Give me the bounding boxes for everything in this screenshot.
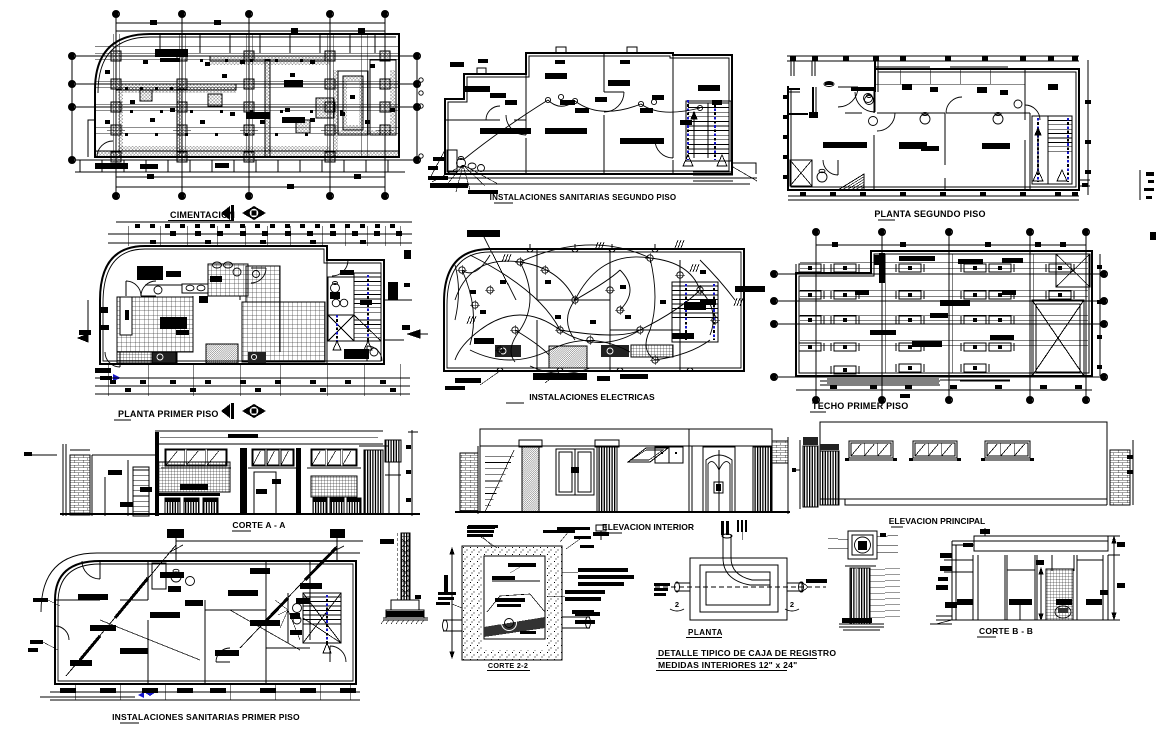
svg-text:INSTALACIONES SANITARIAS SEGUN: INSTALACIONES SANITARIAS SEGUNDO PISO [490, 193, 677, 202]
svg-text:INSTALACIONES SANITARIAS PRIME: INSTALACIONES SANITARIAS PRIMER PISO [112, 712, 300, 722]
svg-text:2: 2 [790, 600, 794, 609]
svg-text:2: 2 [675, 600, 679, 609]
svg-text:TECHO PRIMER PISO: TECHO PRIMER PISO [812, 401, 908, 411]
svg-text:PLANTA SEGUNDO PISO: PLANTA SEGUNDO PISO [874, 209, 985, 219]
svg-text:CORTE A - A: CORTE A - A [232, 520, 285, 530]
svg-text:INSTALACIONES ELECTRICAS: INSTALACIONES ELECTRICAS [529, 392, 655, 402]
svg-text:ELEVACION INTERIOR: ELEVACION INTERIOR [602, 522, 694, 532]
svg-text:MEDIDAS INTERIORES 12" x 24": MEDIDAS INTERIORES 12" x 24" [658, 660, 797, 670]
svg-text:PLANTA: PLANTA [688, 628, 723, 637]
svg-text:DETALLE TIPICO DE CAJA DE REGI: DETALLE TIPICO DE CAJA DE REGISTRO [658, 648, 836, 658]
svg-text:ELEVACION PRINCIPAL: ELEVACION PRINCIPAL [889, 516, 986, 526]
svg-text:PLANTA PRIMER PISO: PLANTA PRIMER PISO [118, 409, 219, 419]
svg-text:CORTE B - B: CORTE B - B [979, 626, 1033, 636]
svg-text:CORTE 2-2: CORTE 2-2 [488, 661, 528, 670]
